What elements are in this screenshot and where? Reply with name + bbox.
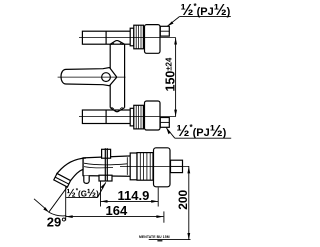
svg-text:29°: 29° <box>47 214 67 229</box>
svg-text:164: 164 <box>106 203 128 218</box>
svg-text:114.9: 114.9 <box>118 188 150 203</box>
svg-text:200: 200 <box>176 189 190 209</box>
svg-text:½*(G½): ½*(G½) <box>67 187 100 199</box>
svg-text:MENTATE BU 15M: MENTATE BU 15M <box>139 235 170 239</box>
